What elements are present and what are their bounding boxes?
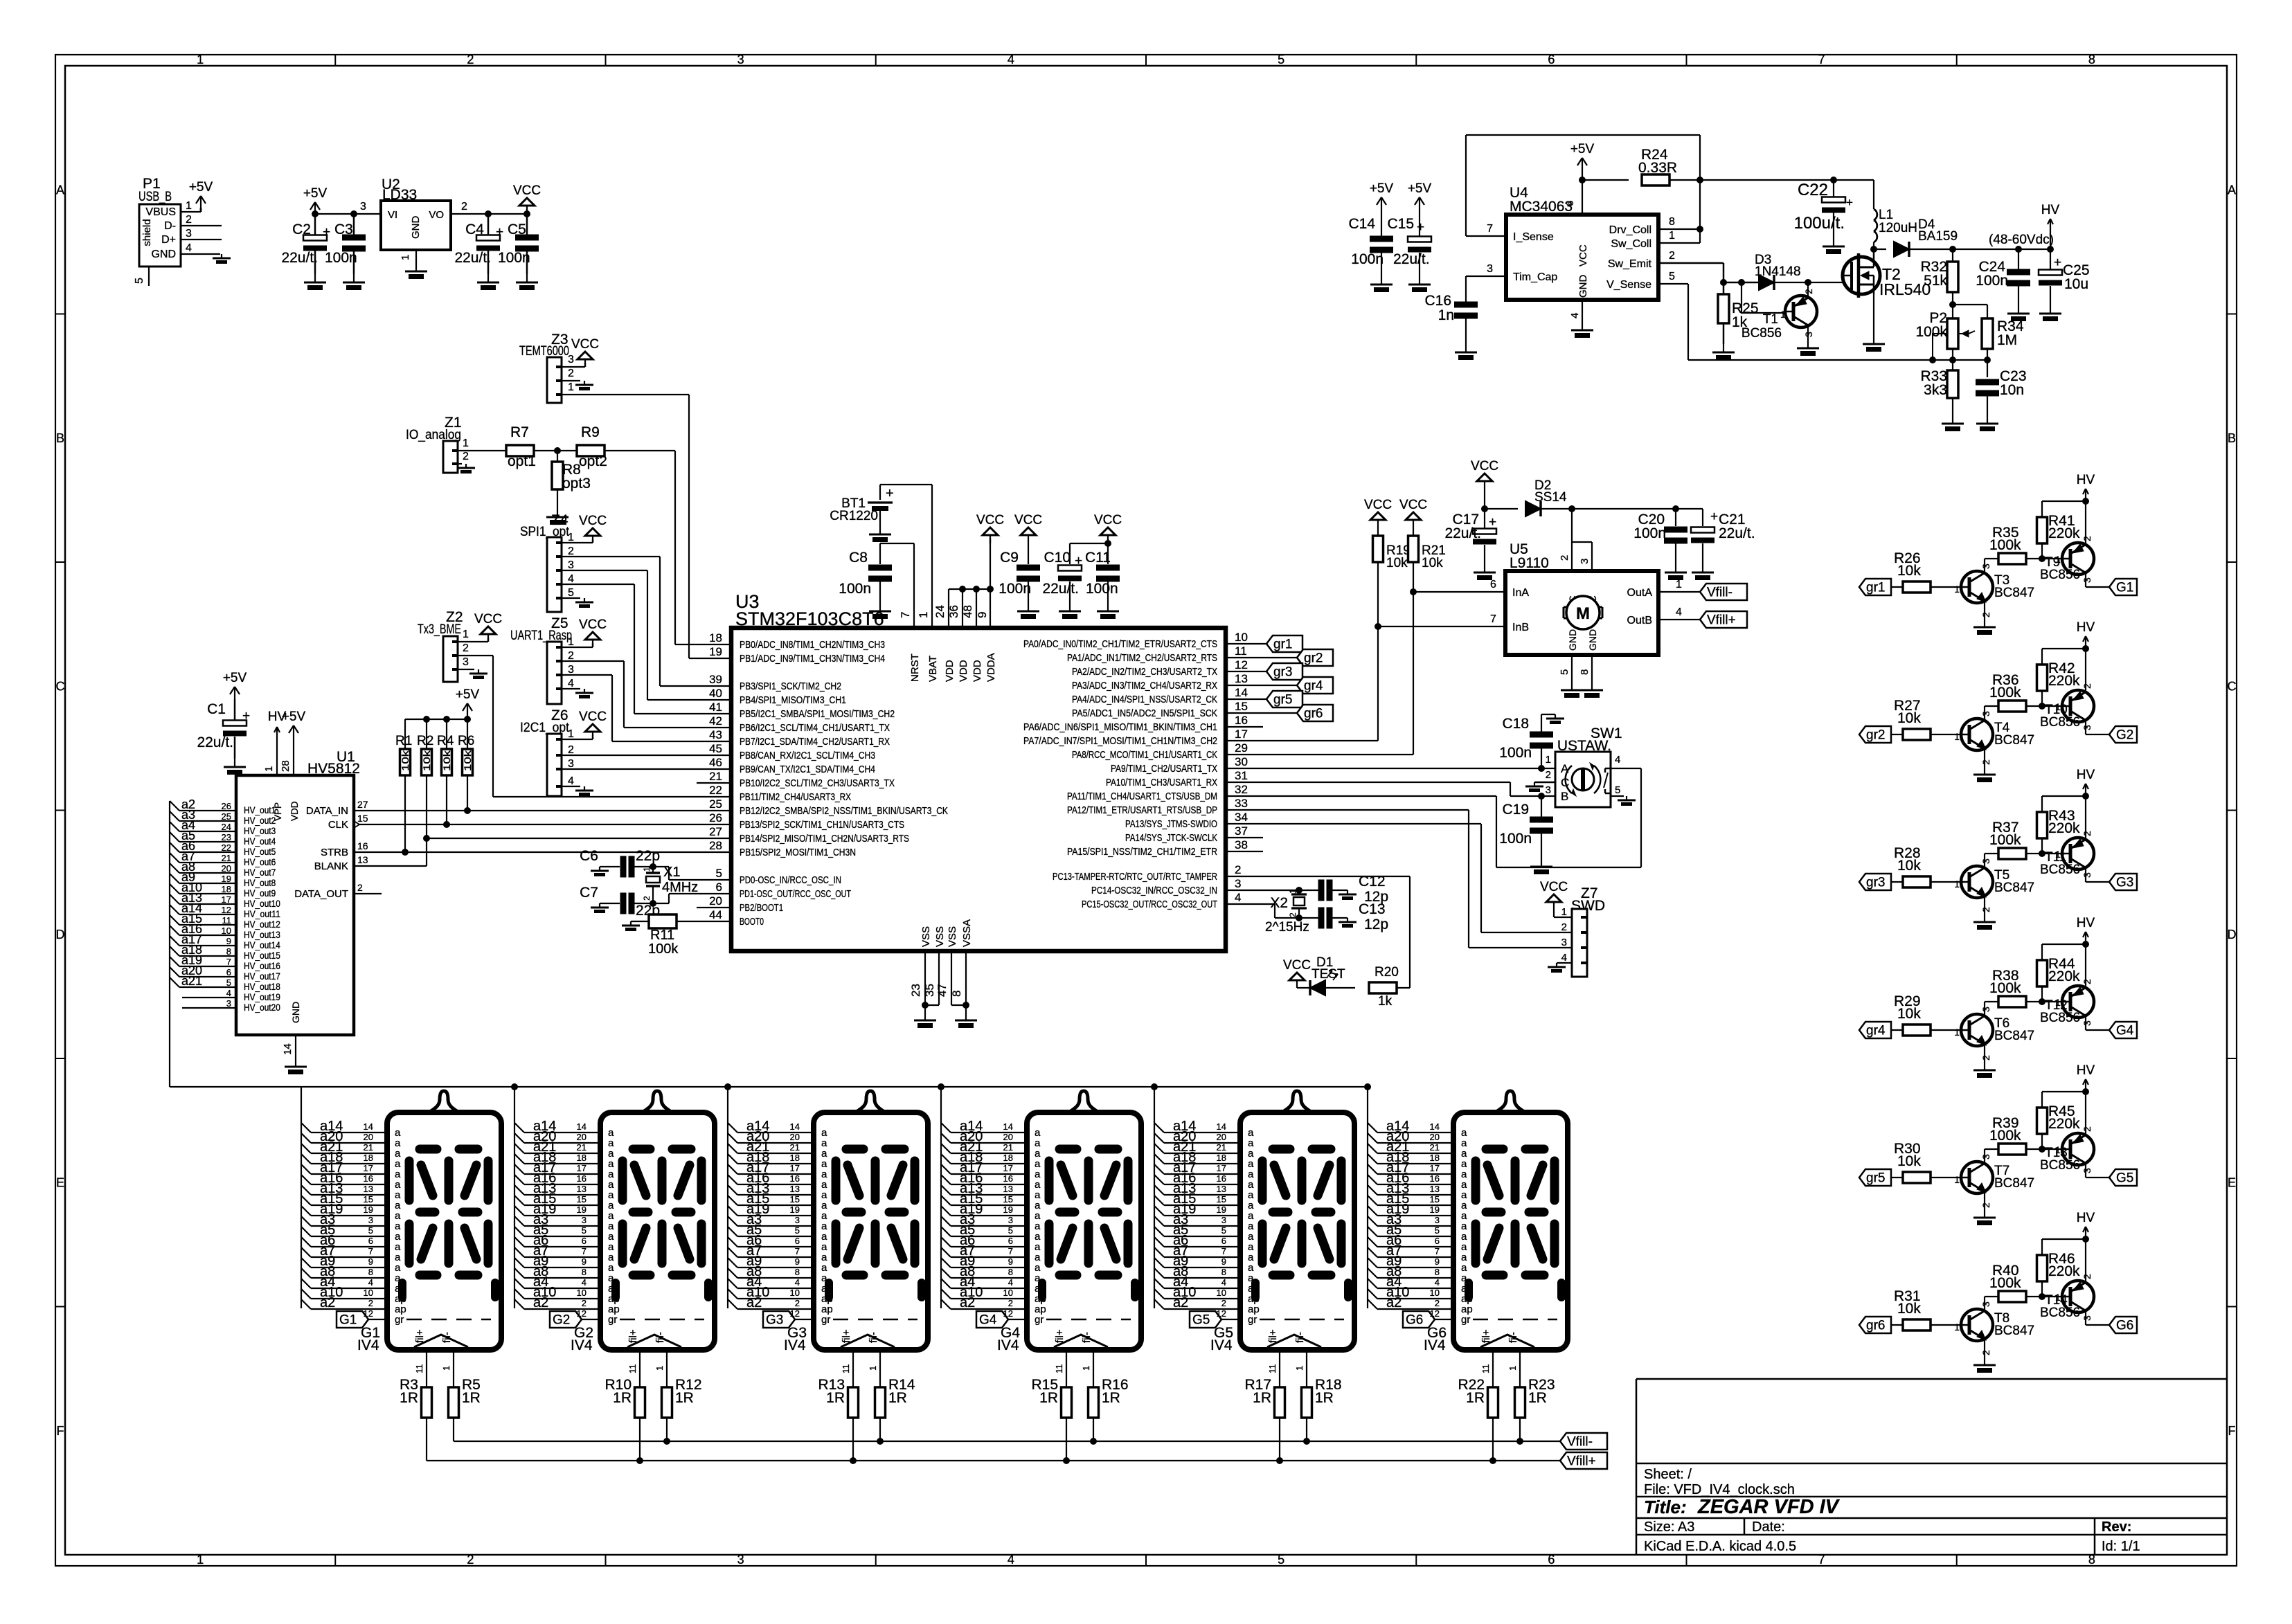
svg-text:HV_out3: HV_out3 bbox=[244, 826, 276, 836]
svg-text:PA10/TIM1_CH3/USART1_RX: PA10/TIM1_CH3/USART1_RX bbox=[1106, 777, 1217, 788]
svg-text:1: 1 bbox=[1954, 878, 1960, 890]
svg-text:14: 14 bbox=[577, 1121, 587, 1132]
svg-text:9: 9 bbox=[226, 936, 231, 946]
svg-text:7: 7 bbox=[1435, 1246, 1440, 1256]
svg-text:gr1: gr1 bbox=[1866, 581, 1885, 595]
svg-text:1: 1 bbox=[642, 867, 652, 872]
svg-text:5: 5 bbox=[1221, 1225, 1226, 1236]
svg-text:1n: 1n bbox=[1438, 307, 1454, 323]
svg-text:G2: G2 bbox=[2116, 728, 2133, 743]
svg-text:6: 6 bbox=[1548, 53, 1555, 66]
svg-text:NRST: NRST bbox=[909, 653, 921, 682]
svg-text:G5: G5 bbox=[1192, 1313, 1210, 1328]
svg-text:100n: 100n bbox=[999, 581, 1031, 597]
svg-text:+5V: +5V bbox=[189, 180, 213, 195]
svg-text:25: 25 bbox=[709, 797, 722, 811]
svg-text:HV_out16: HV_out16 bbox=[244, 961, 280, 971]
svg-text:12: 12 bbox=[1430, 1308, 1440, 1319]
svg-text:gr1: gr1 bbox=[1273, 638, 1292, 652]
svg-text:5: 5 bbox=[134, 278, 145, 284]
svg-text:4: 4 bbox=[1561, 952, 1567, 964]
svg-text:HV_out7: HV_out7 bbox=[244, 867, 276, 878]
svg-text:OutB: OutB bbox=[1627, 615, 1652, 626]
svg-text:3: 3 bbox=[368, 1215, 373, 1225]
svg-text:shield: shield bbox=[141, 219, 153, 246]
svg-text:100n: 100n bbox=[1086, 581, 1118, 597]
svg-text:HV_out17: HV_out17 bbox=[244, 971, 280, 982]
svg-text:Sw_Coll: Sw_Coll bbox=[1611, 238, 1651, 250]
svg-text:L9110: L9110 bbox=[1510, 555, 1549, 571]
svg-text:19: 19 bbox=[709, 645, 722, 658]
svg-text:30: 30 bbox=[1235, 755, 1248, 768]
svg-text:BC856: BC856 bbox=[2040, 1306, 2080, 1320]
svg-text:HV_out13: HV_out13 bbox=[244, 930, 280, 940]
svg-text:17: 17 bbox=[222, 894, 231, 905]
svg-text:2: 2 bbox=[2081, 979, 2093, 984]
svg-text:3: 3 bbox=[795, 1215, 800, 1225]
svg-text:8: 8 bbox=[582, 1267, 587, 1277]
svg-text:100n: 100n bbox=[1633, 525, 1666, 541]
svg-text:4: 4 bbox=[1008, 1277, 1013, 1288]
svg-text:gr3: gr3 bbox=[1273, 665, 1292, 680]
svg-text:24: 24 bbox=[222, 822, 231, 832]
svg-text:fil+: fil+ bbox=[627, 1329, 639, 1343]
svg-text:1R: 1R bbox=[1102, 1390, 1120, 1406]
svg-text:DATA_OUT: DATA_OUT bbox=[294, 888, 348, 900]
svg-text:10: 10 bbox=[222, 926, 231, 936]
svg-text:21: 21 bbox=[1430, 1142, 1440, 1153]
svg-text:2: 2 bbox=[582, 1298, 587, 1308]
svg-text:8: 8 bbox=[226, 946, 231, 957]
svg-text:B: B bbox=[56, 431, 64, 445]
svg-text:fil-: fil- bbox=[654, 1332, 666, 1343]
svg-text:R7: R7 bbox=[510, 424, 529, 440]
svg-text:23: 23 bbox=[222, 832, 231, 842]
svg-text:B: B bbox=[1561, 790, 1568, 803]
svg-text:HV_out19: HV_out19 bbox=[244, 992, 280, 1002]
svg-text:34: 34 bbox=[1235, 811, 1248, 824]
svg-text:IV4: IV4 bbox=[1210, 1337, 1233, 1353]
svg-text:21: 21 bbox=[790, 1142, 800, 1153]
svg-text:VCC: VCC bbox=[579, 710, 607, 724]
svg-text:1: 1 bbox=[2055, 1144, 2061, 1155]
svg-text:VSS: VSS bbox=[920, 926, 932, 947]
svg-text:HV: HV bbox=[2077, 620, 2095, 635]
svg-text:C: C bbox=[2228, 679, 2237, 693]
svg-text:VDD: VDD bbox=[958, 660, 969, 682]
svg-text:R20: R20 bbox=[1375, 965, 1399, 980]
svg-text:Title:: Title: bbox=[1644, 1497, 1687, 1517]
svg-text:2: 2 bbox=[568, 368, 574, 379]
svg-text:18: 18 bbox=[1217, 1153, 1226, 1163]
svg-text:B: B bbox=[2228, 431, 2236, 445]
svg-text:BC847: BC847 bbox=[1994, 733, 2034, 748]
svg-text:25: 25 bbox=[222, 811, 231, 822]
svg-text:Tim_Cap: Tim_Cap bbox=[1513, 271, 1557, 283]
svg-text:C13: C13 bbox=[1359, 901, 1386, 917]
svg-text:BA159: BA159 bbox=[1918, 229, 1958, 244]
svg-text:BC856: BC856 bbox=[2040, 568, 2080, 582]
svg-text:8: 8 bbox=[368, 1267, 373, 1277]
svg-text:a2: a2 bbox=[746, 1295, 762, 1310]
svg-text:9: 9 bbox=[1008, 1256, 1013, 1267]
svg-text:2: 2 bbox=[1669, 250, 1675, 262]
svg-text:C8: C8 bbox=[849, 550, 868, 566]
svg-text:17: 17 bbox=[577, 1163, 587, 1173]
svg-text:VDD: VDD bbox=[972, 660, 983, 682]
svg-text:HV_out18: HV_out18 bbox=[244, 982, 280, 992]
svg-text:6: 6 bbox=[1548, 1553, 1555, 1567]
svg-text:USB_B: USB_B bbox=[138, 190, 172, 204]
svg-text:9: 9 bbox=[582, 1256, 587, 1267]
svg-text:1: 1 bbox=[654, 1366, 665, 1371]
svg-text:1M: 1M bbox=[1997, 332, 2017, 348]
svg-text:3: 3 bbox=[2081, 725, 2093, 730]
svg-text:C5: C5 bbox=[508, 222, 526, 237]
svg-text:3: 3 bbox=[568, 559, 574, 571]
svg-text:C3: C3 bbox=[334, 222, 353, 237]
svg-text:8: 8 bbox=[1579, 669, 1591, 675]
svg-text:PA7/ADC_IN7/SPI1_MOSI/TIM1_CH1: PA7/ADC_IN7/SPI1_MOSI/TIM1_CH1N/TIM3_CH2 bbox=[1023, 735, 1217, 747]
svg-text:19: 19 bbox=[222, 874, 231, 884]
svg-text:STM32F103C8T6: STM32F103C8T6 bbox=[735, 608, 884, 629]
svg-text:11: 11 bbox=[627, 1364, 638, 1374]
svg-text:1R: 1R bbox=[400, 1390, 418, 1406]
svg-text:fil+: fil+ bbox=[1267, 1329, 1279, 1343]
svg-text:HV: HV bbox=[2077, 916, 2095, 930]
svg-text:8: 8 bbox=[1221, 1267, 1226, 1277]
svg-text:7: 7 bbox=[1818, 53, 1825, 66]
svg-text:a2: a2 bbox=[1386, 1295, 1402, 1310]
svg-text:+5V: +5V bbox=[1408, 181, 1432, 196]
svg-text:G6: G6 bbox=[1406, 1313, 1423, 1328]
svg-text:5: 5 bbox=[1615, 784, 1620, 796]
svg-text:BC847: BC847 bbox=[1994, 1029, 2034, 1043]
svg-text:2: 2 bbox=[1803, 289, 1814, 294]
svg-text:C18: C18 bbox=[1502, 716, 1529, 732]
svg-text:5: 5 bbox=[716, 867, 722, 880]
svg-text:gr: gr bbox=[1035, 1314, 1044, 1326]
svg-text:T1: T1 bbox=[1763, 312, 1778, 327]
svg-text:1: 1 bbox=[186, 200, 192, 212]
svg-text:+: + bbox=[1075, 554, 1082, 568]
svg-text:MC34063: MC34063 bbox=[1510, 199, 1573, 215]
svg-text:100n: 100n bbox=[325, 250, 357, 266]
svg-text:M: M bbox=[1576, 604, 1590, 623]
svg-text:R4: R4 bbox=[437, 734, 454, 748]
svg-text:20: 20 bbox=[1217, 1132, 1226, 1142]
svg-text:27: 27 bbox=[357, 799, 368, 810]
svg-text:3: 3 bbox=[1435, 1215, 1440, 1225]
svg-text:G1: G1 bbox=[339, 1313, 357, 1328]
svg-text:2: 2 bbox=[186, 214, 192, 226]
svg-text:1: 1 bbox=[568, 532, 574, 543]
svg-text:6: 6 bbox=[795, 1236, 800, 1246]
svg-text:PA1/ADC_IN1/TIM2_CH2/USART2_RT: PA1/ADC_IN1/TIM2_CH2/USART2_RTS bbox=[1067, 652, 1217, 664]
svg-text:1k: 1k bbox=[1378, 994, 1393, 1009]
svg-text:C11: C11 bbox=[1085, 550, 1111, 566]
svg-text:GND: GND bbox=[1567, 629, 1578, 651]
svg-text:G5: G5 bbox=[2116, 1171, 2133, 1186]
svg-text:fil-: fil- bbox=[1507, 1332, 1519, 1343]
svg-text:3: 3 bbox=[568, 664, 574, 676]
svg-text:6: 6 bbox=[226, 967, 231, 977]
svg-text:IV4: IV4 bbox=[997, 1337, 1019, 1353]
svg-text:1: 1 bbox=[1561, 906, 1567, 918]
svg-text:4: 4 bbox=[1008, 1553, 1014, 1567]
svg-text:G4: G4 bbox=[979, 1313, 997, 1328]
svg-text:100n: 100n bbox=[1976, 273, 2008, 289]
svg-text:9: 9 bbox=[795, 1256, 800, 1267]
svg-text:C16: C16 bbox=[1424, 293, 1451, 309]
svg-text:19: 19 bbox=[577, 1205, 587, 1215]
svg-text:1R: 1R bbox=[888, 1390, 907, 1406]
svg-text:+: + bbox=[886, 486, 894, 501]
svg-text:31: 31 bbox=[1235, 769, 1248, 782]
svg-text:HV_out5: HV_out5 bbox=[244, 847, 276, 857]
svg-text:7: 7 bbox=[1008, 1246, 1013, 1256]
svg-text:3: 3 bbox=[463, 656, 469, 668]
svg-text:16: 16 bbox=[364, 1173, 373, 1184]
svg-text:D: D bbox=[56, 928, 65, 941]
svg-text:2: 2 bbox=[2081, 536, 2093, 541]
svg-text:19: 19 bbox=[1217, 1205, 1226, 1215]
svg-text:HV: HV bbox=[2077, 768, 2095, 782]
svg-text:+: + bbox=[496, 225, 503, 240]
svg-text:4: 4 bbox=[568, 678, 574, 689]
svg-text:1: 1 bbox=[1954, 1027, 1960, 1038]
svg-text:13: 13 bbox=[790, 1184, 800, 1194]
svg-text:6: 6 bbox=[1008, 1236, 1013, 1246]
svg-text:+5V: +5V bbox=[282, 710, 306, 724]
svg-text:2: 2 bbox=[642, 896, 652, 901]
svg-text:220k: 220k bbox=[2048, 1116, 2080, 1132]
svg-text:17: 17 bbox=[1235, 728, 1248, 741]
svg-text:1: 1 bbox=[568, 728, 574, 740]
svg-text:2: 2 bbox=[568, 650, 574, 662]
svg-text:1R: 1R bbox=[675, 1390, 694, 1406]
svg-text:GND: GND bbox=[1577, 275, 1589, 298]
svg-text:14: 14 bbox=[1235, 686, 1248, 699]
svg-text:G3: G3 bbox=[2116, 876, 2133, 890]
svg-text:13: 13 bbox=[577, 1184, 587, 1194]
svg-text:PD0-OSC_IN/RCC_OSC_IN: PD0-OSC_IN/RCC_OSC_IN bbox=[740, 874, 841, 886]
svg-text:21: 21 bbox=[1003, 1142, 1013, 1153]
svg-text:+: + bbox=[242, 709, 250, 723]
svg-text:5: 5 bbox=[1435, 1225, 1440, 1236]
svg-text:HV_out4: HV_out4 bbox=[244, 836, 276, 847]
svg-text:4: 4 bbox=[1676, 606, 1682, 618]
svg-text:21: 21 bbox=[222, 853, 231, 863]
svg-text:2: 2 bbox=[1980, 1202, 1991, 1208]
svg-text:120uH: 120uH bbox=[1879, 221, 1917, 235]
svg-text:10u: 10u bbox=[2064, 276, 2088, 292]
svg-text:22u/t.: 22u/t. bbox=[1042, 581, 1079, 597]
svg-text:fil+: fil+ bbox=[841, 1329, 852, 1343]
svg-text:GND: GND bbox=[410, 216, 422, 240]
svg-text:3: 3 bbox=[2081, 1168, 2093, 1173]
svg-text:12: 12 bbox=[1235, 658, 1248, 671]
svg-text:1N4148: 1N4148 bbox=[1755, 264, 1801, 279]
svg-text:gr6: gr6 bbox=[1866, 1319, 1885, 1333]
svg-text:C12: C12 bbox=[1359, 874, 1386, 890]
svg-text:SS14: SS14 bbox=[1534, 490, 1567, 505]
svg-text:TEST: TEST bbox=[1311, 967, 1345, 982]
svg-text:2: 2 bbox=[2081, 1126, 2093, 1132]
svg-text:1: 1 bbox=[1288, 889, 1298, 894]
svg-text:4MHz: 4MHz bbox=[662, 880, 698, 895]
svg-text:A: A bbox=[56, 183, 64, 197]
svg-text:7: 7 bbox=[368, 1246, 373, 1256]
svg-text:8: 8 bbox=[1008, 1267, 1013, 1277]
svg-text:File: VFD_IV4_clock.sch: File: VFD_IV4_clock.sch bbox=[1644, 1482, 1795, 1497]
svg-text:VO: VO bbox=[429, 209, 444, 221]
svg-text:4: 4 bbox=[1235, 891, 1241, 904]
svg-text:C22: C22 bbox=[1798, 181, 1828, 199]
svg-text:gr4: gr4 bbox=[1866, 1024, 1886, 1038]
svg-text:6: 6 bbox=[1564, 201, 1576, 206]
svg-text:Tx3_BME: Tx3_BME bbox=[418, 622, 461, 637]
svg-text:10k: 10k bbox=[1897, 710, 1921, 726]
svg-text:I_Sense: I_Sense bbox=[1513, 231, 1554, 243]
svg-text:+: + bbox=[1846, 196, 1853, 209]
svg-text:13: 13 bbox=[1235, 672, 1248, 685]
svg-text:2: 2 bbox=[368, 1298, 373, 1308]
svg-text:V_Sense: V_Sense bbox=[1606, 279, 1651, 291]
svg-text:2: 2 bbox=[1221, 1298, 1226, 1308]
svg-text:a21: a21 bbox=[181, 974, 202, 988]
svg-text:GND: GND bbox=[290, 1002, 301, 1023]
svg-text:17: 17 bbox=[1003, 1163, 1013, 1173]
svg-text:Vfill-: Vfill- bbox=[1707, 586, 1733, 600]
svg-text:Vfill+: Vfill+ bbox=[1567, 1454, 1596, 1469]
svg-text:+: + bbox=[323, 225, 330, 240]
svg-text:10k: 10k bbox=[1897, 1006, 1921, 1022]
svg-text:C10: C10 bbox=[1044, 550, 1071, 566]
svg-text:3: 3 bbox=[2081, 1020, 2093, 1026]
svg-text:18: 18 bbox=[1430, 1153, 1440, 1163]
svg-text:220k: 220k bbox=[2048, 820, 2080, 836]
svg-text:11: 11 bbox=[1480, 1364, 1491, 1374]
svg-text:LD33: LD33 bbox=[382, 187, 417, 203]
svg-text:1R: 1R bbox=[826, 1390, 845, 1406]
svg-text:BLANK: BLANK bbox=[314, 860, 348, 872]
svg-text:3: 3 bbox=[1980, 1154, 1991, 1160]
svg-text:42: 42 bbox=[709, 714, 722, 728]
svg-text:Date:: Date: bbox=[1752, 1519, 1785, 1535]
svg-text:C9: C9 bbox=[1000, 550, 1019, 566]
svg-text:D: D bbox=[2228, 928, 2237, 941]
svg-text:15: 15 bbox=[790, 1194, 800, 1205]
svg-text:3: 3 bbox=[737, 1553, 744, 1567]
svg-text:1: 1 bbox=[917, 612, 930, 618]
svg-text:1R: 1R bbox=[1315, 1390, 1334, 1406]
svg-text:13: 13 bbox=[357, 854, 368, 865]
svg-text:3: 3 bbox=[2081, 1315, 2093, 1321]
svg-text:100k: 100k bbox=[1989, 1275, 2021, 1291]
svg-text:HV: HV bbox=[2077, 1063, 2095, 1078]
svg-text:4: 4 bbox=[795, 1277, 800, 1288]
svg-text:fil-: fil- bbox=[1081, 1332, 1093, 1343]
svg-text:4: 4 bbox=[226, 988, 231, 998]
svg-text:3: 3 bbox=[1980, 1007, 1991, 1012]
svg-text:9: 9 bbox=[976, 612, 989, 618]
svg-text:C1: C1 bbox=[207, 701, 226, 717]
svg-text:1: 1 bbox=[568, 636, 574, 648]
svg-text:7: 7 bbox=[1221, 1246, 1226, 1256]
svg-text:C15: C15 bbox=[1387, 216, 1414, 232]
svg-text:a2: a2 bbox=[1173, 1295, 1188, 1310]
svg-text:BOOT0: BOOT0 bbox=[740, 916, 764, 928]
svg-text:Vfill+: Vfill+ bbox=[1707, 613, 1736, 628]
svg-text:45: 45 bbox=[709, 742, 722, 755]
svg-text:VDDA: VDDA bbox=[985, 653, 997, 682]
svg-text:0.33R: 0.33R bbox=[1638, 160, 1677, 176]
svg-text:3: 3 bbox=[568, 354, 574, 366]
svg-text:100k: 100k bbox=[1989, 537, 2021, 553]
svg-text:F: F bbox=[57, 1424, 64, 1438]
svg-text:6: 6 bbox=[368, 1236, 373, 1246]
svg-text:18: 18 bbox=[364, 1153, 373, 1163]
svg-text:1R: 1R bbox=[1466, 1390, 1485, 1406]
svg-text:2: 2 bbox=[1288, 912, 1298, 917]
svg-text:gr4: gr4 bbox=[1304, 679, 1323, 694]
svg-text:4: 4 bbox=[1435, 1277, 1440, 1288]
svg-text:24: 24 bbox=[933, 605, 947, 618]
svg-text:1: 1 bbox=[197, 53, 204, 66]
svg-text:6: 6 bbox=[1221, 1236, 1226, 1246]
svg-text:X2: X2 bbox=[1270, 895, 1288, 911]
svg-text:3: 3 bbox=[582, 1215, 587, 1225]
svg-text:3: 3 bbox=[2081, 577, 2093, 583]
svg-text:17: 17 bbox=[1217, 1163, 1226, 1173]
svg-text:VDD: VDD bbox=[944, 660, 956, 682]
svg-text:29: 29 bbox=[1235, 741, 1248, 755]
svg-text:2: 2 bbox=[2081, 683, 2093, 689]
svg-text:BC847: BC847 bbox=[1994, 586, 2034, 600]
svg-text:22u/t.: 22u/t. bbox=[1719, 525, 1755, 541]
svg-text:10: 10 bbox=[1235, 631, 1248, 644]
svg-text:4: 4 bbox=[568, 775, 574, 787]
svg-text:26: 26 bbox=[709, 811, 722, 824]
svg-text:220k: 220k bbox=[2048, 1263, 2080, 1279]
svg-text:8: 8 bbox=[795, 1267, 800, 1277]
svg-text:fil+: fil+ bbox=[414, 1329, 426, 1343]
svg-text:VSS: VSS bbox=[934, 926, 946, 947]
svg-text:10: 10 bbox=[1003, 1288, 1013, 1298]
svg-text:8: 8 bbox=[1669, 216, 1675, 228]
svg-text:gr6: gr6 bbox=[1304, 707, 1323, 721]
svg-text:7: 7 bbox=[795, 1246, 800, 1256]
svg-text:20: 20 bbox=[364, 1132, 373, 1142]
svg-text:1: 1 bbox=[1954, 1321, 1960, 1333]
svg-text:19: 19 bbox=[1003, 1205, 1013, 1215]
svg-text:PA15/SPI1_NSS/TIM2_CH1/TIM2_ET: PA15/SPI1_NSS/TIM2_CH1/TIM2_ETR bbox=[1067, 846, 1217, 858]
svg-text:+5V: +5V bbox=[456, 687, 480, 702]
svg-text:1: 1 bbox=[263, 766, 275, 772]
svg-text:VCC: VCC bbox=[1540, 880, 1568, 894]
svg-text:10: 10 bbox=[1430, 1288, 1440, 1298]
svg-text:G6: G6 bbox=[2116, 1319, 2133, 1333]
svg-text:1: 1 bbox=[1507, 1366, 1518, 1371]
svg-text:IV4: IV4 bbox=[357, 1337, 379, 1353]
svg-text:10: 10 bbox=[577, 1288, 587, 1298]
svg-text:14: 14 bbox=[790, 1121, 800, 1132]
svg-text:PA8/RCC_MCO/TIM1_CH1/USART1_CK: PA8/RCC_MCO/TIM1_CH1/USART1_CK bbox=[1072, 749, 1217, 761]
svg-text:9: 9 bbox=[1221, 1256, 1226, 1267]
svg-text:3: 3 bbox=[360, 201, 366, 213]
svg-text:4: 4 bbox=[582, 1277, 587, 1288]
